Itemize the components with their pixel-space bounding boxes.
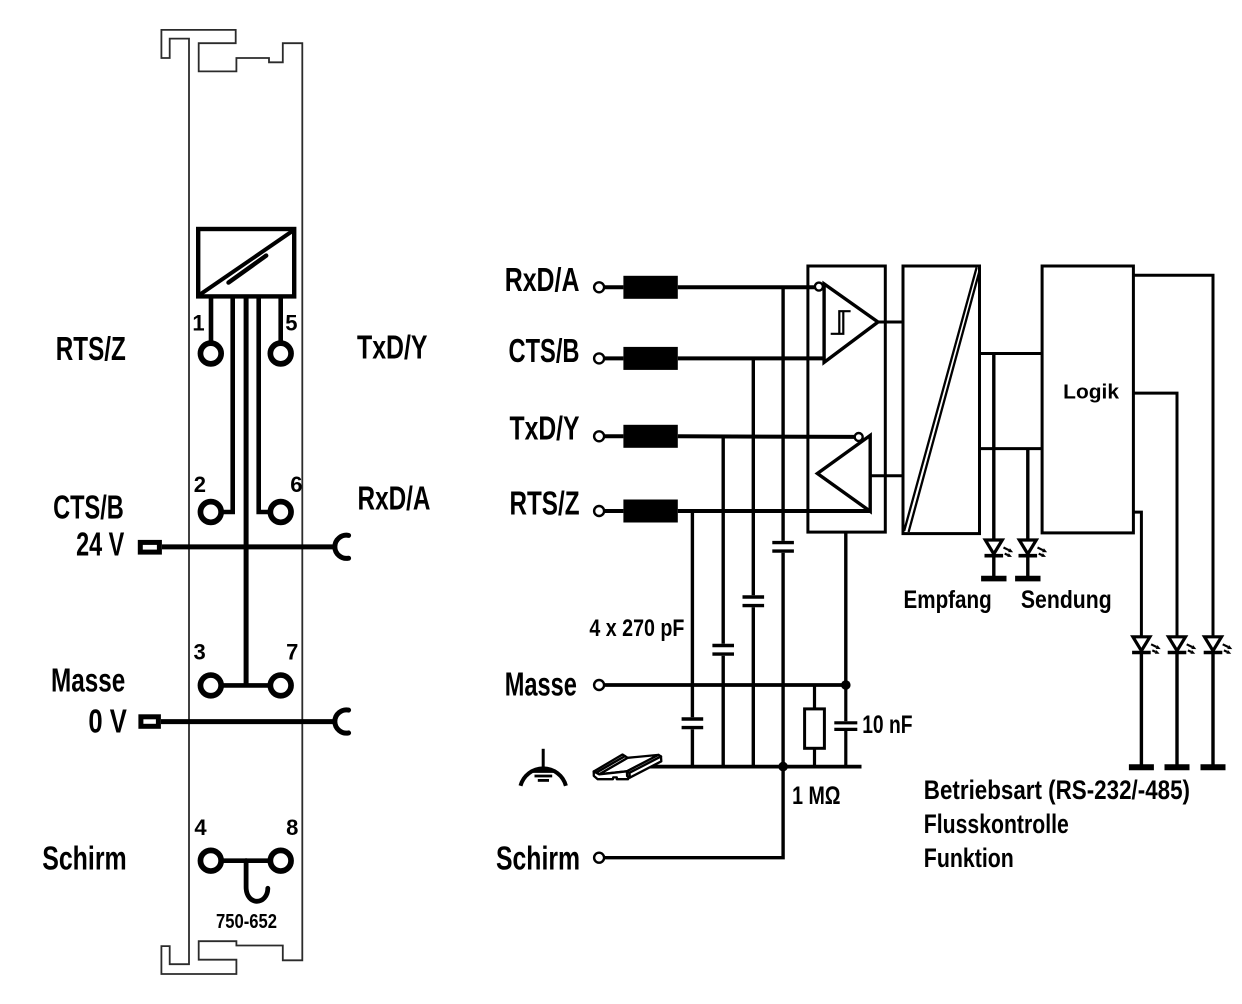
svg-text:750-652: 750-652 [216, 911, 277, 933]
wire pin 5 stub [278, 296, 283, 342]
capacitor drop TxD/Y (270pF) [722, 436, 725, 644]
wire TxD/Y row [605, 434, 624, 438]
wire Schirm row [605, 767, 783, 858]
LED status 3 [1204, 637, 1233, 654]
svg-text:Flusskontrolle: Flusskontrolle [924, 809, 1069, 839]
hysteresis symbol [831, 311, 851, 334]
filter block TxD/Y [623, 425, 677, 448]
wire Masse row [605, 683, 846, 687]
capacitor drop RxD/A (270pF) [781, 287, 784, 541]
capacitor 10 nF [844, 685, 847, 721]
terminal circle Schirm [594, 853, 604, 863]
LED Empfang [992, 354, 995, 541]
24V power-jumper contact arc [335, 535, 349, 558]
svg-text:RxD/A: RxD/A [505, 261, 580, 298]
pin 2 [200, 502, 221, 523]
wire RxD/A row [605, 285, 624, 289]
power block diagonal [200, 231, 292, 294]
junction dot Masse node [841, 680, 851, 690]
wire link pins 3-7 [222, 683, 270, 688]
24V feed terminal square [140, 542, 159, 552]
svg-text:8: 8 [286, 815, 298, 840]
0V feed terminal square [141, 717, 159, 727]
pin 7 [270, 675, 291, 696]
svg-text:Betriebsart (RS-232/-485): Betriebsart (RS-232/-485) [924, 775, 1190, 805]
wire to pin 6 [259, 296, 270, 512]
svg-text:5: 5 [285, 310, 297, 335]
wire RTS/Z row [605, 509, 624, 513]
comparator triangle (receiver) [824, 284, 878, 363]
svg-text:7: 7 [286, 640, 298, 665]
terminal circle CTS/B [594, 353, 604, 363]
shield hook on pins 4-8 link [246, 861, 268, 902]
wire 0V rail [161, 719, 335, 724]
pin 4 [200, 850, 221, 871]
svg-text:Empfang: Empfang [904, 586, 992, 614]
driver enable circle [855, 433, 863, 441]
inverting input circle (receiver) [815, 283, 823, 291]
isolation diagonal 2 [909, 272, 980, 532]
LED status 1 [1132, 637, 1161, 654]
svg-text:4 x 270 pF: 4 x 270 pF [589, 615, 684, 642]
svg-text:Sendung: Sendung [1021, 586, 1112, 614]
svg-text:TxD/Y: TxD/Y [357, 329, 428, 366]
wire CTS/B row [605, 356, 624, 360]
wire isolation to logic top [980, 352, 1043, 355]
pin 5 [270, 343, 291, 364]
Logik block [1042, 266, 1133, 533]
LED status 2 [1168, 637, 1197, 654]
filter block RxD/A [623, 276, 677, 299]
wire pin 1 stub [209, 296, 214, 342]
terminal circle RxD/A [594, 282, 604, 292]
pin 6 [270, 502, 291, 523]
wire driver input [870, 474, 903, 477]
DIN rail symbol [594, 755, 662, 780]
module housing outline [161, 30, 302, 974]
filter block RTS/Z [623, 500, 677, 523]
svg-text:Schirm: Schirm [42, 840, 127, 877]
terminal circle TxD/Y [594, 431, 604, 441]
svg-text:RTS/Z: RTS/Z [56, 330, 126, 367]
svg-text:Funktion: Funktion [924, 843, 1014, 873]
LED Sendung [1026, 449, 1029, 541]
resistor 1 Mohm [813, 685, 816, 709]
capacitor drop CTS/B (270pF) [752, 358, 755, 595]
wire to pin 2 [222, 296, 233, 512]
svg-text:2: 2 [194, 472, 206, 497]
capacitor drop RTS/Z (270pF) [691, 511, 694, 717]
svg-text:6: 6 [290, 472, 302, 497]
rail near flange top face [627, 755, 661, 773]
0V power-jumper contact arc [335, 710, 349, 733]
filter block CTS/B [623, 347, 677, 370]
svg-text:3: 3 [193, 640, 205, 665]
svg-text:0 V: 0 V [88, 702, 127, 739]
rail near flange outer face [629, 757, 661, 778]
wire link pins 4-8 [222, 858, 270, 863]
chassis ground rail wire [649, 765, 862, 769]
wire 24V rail [162, 544, 335, 549]
earth symbol [521, 768, 566, 785]
isolation block [903, 266, 980, 534]
svg-text:10 nF: 10 nF [862, 711, 912, 739]
svg-text:Masse: Masse [505, 665, 577, 702]
svg-text:RxD/A: RxD/A [358, 480, 431, 517]
svg-text:Schirm: Schirm [496, 840, 580, 877]
rail far flange inner wall [596, 756, 627, 774]
rail web front face with slot notch [594, 771, 629, 779]
rail near flange front cap [627, 771, 630, 777]
terminal circle RTS/Z [594, 506, 604, 516]
pin 3 [200, 675, 221, 696]
rail channel floor [599, 755, 658, 774]
rail far flange top face [594, 755, 625, 773]
wire receiver output [878, 321, 903, 324]
wire logic out 3 (bottom jog) [1133, 512, 1141, 637]
svg-text:CTS/B: CTS/B [53, 489, 124, 526]
svg-text:Masse: Masse [51, 661, 125, 698]
wire logic out 2 (mid) [1133, 393, 1177, 637]
wire center bus to pins 3-7 [244, 296, 249, 685]
svg-text:24 V: 24 V [76, 526, 124, 563]
terminal circle Masse [594, 680, 604, 690]
wire isolation to logic bottom [980, 447, 1043, 450]
svg-text:CTS/B: CTS/B [509, 332, 580, 369]
pin 8 [270, 850, 291, 871]
wire box ground stub [844, 532, 847, 685]
svg-text:4: 4 [194, 815, 207, 840]
power supply block (rect with diagonal) [198, 229, 294, 296]
power block accent stripe [229, 256, 267, 283]
svg-text:1: 1 [192, 310, 204, 335]
driver triangle (transmitter) [817, 435, 870, 511]
wire logic out 1 (top) [1133, 275, 1213, 637]
svg-text:TxD/Y: TxD/Y [510, 410, 580, 447]
junction dot shield node [778, 762, 788, 772]
svg-text:Logik: Logik [1063, 381, 1119, 404]
pin 1 [200, 343, 221, 364]
svg-text:RTS/Z: RTS/Z [510, 484, 580, 521]
receiver/driver box [808, 266, 885, 532]
svg-text:1 MΩ: 1 MΩ [792, 782, 840, 810]
isolation diagonal 1 [904, 268, 976, 531]
